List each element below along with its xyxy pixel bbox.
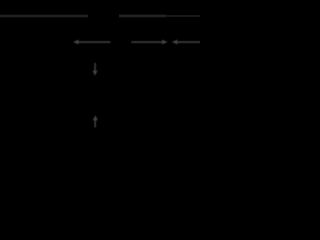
arrow right	[131, 40, 167, 45]
arrow down	[92, 63, 97, 76]
wire	[0, 15, 88, 17]
arrow up	[93, 115, 98, 127]
arrow left edge	[172, 40, 203, 45]
wire	[119, 15, 166, 18]
arrow left	[73, 40, 111, 45]
wire	[165, 15, 202, 17]
